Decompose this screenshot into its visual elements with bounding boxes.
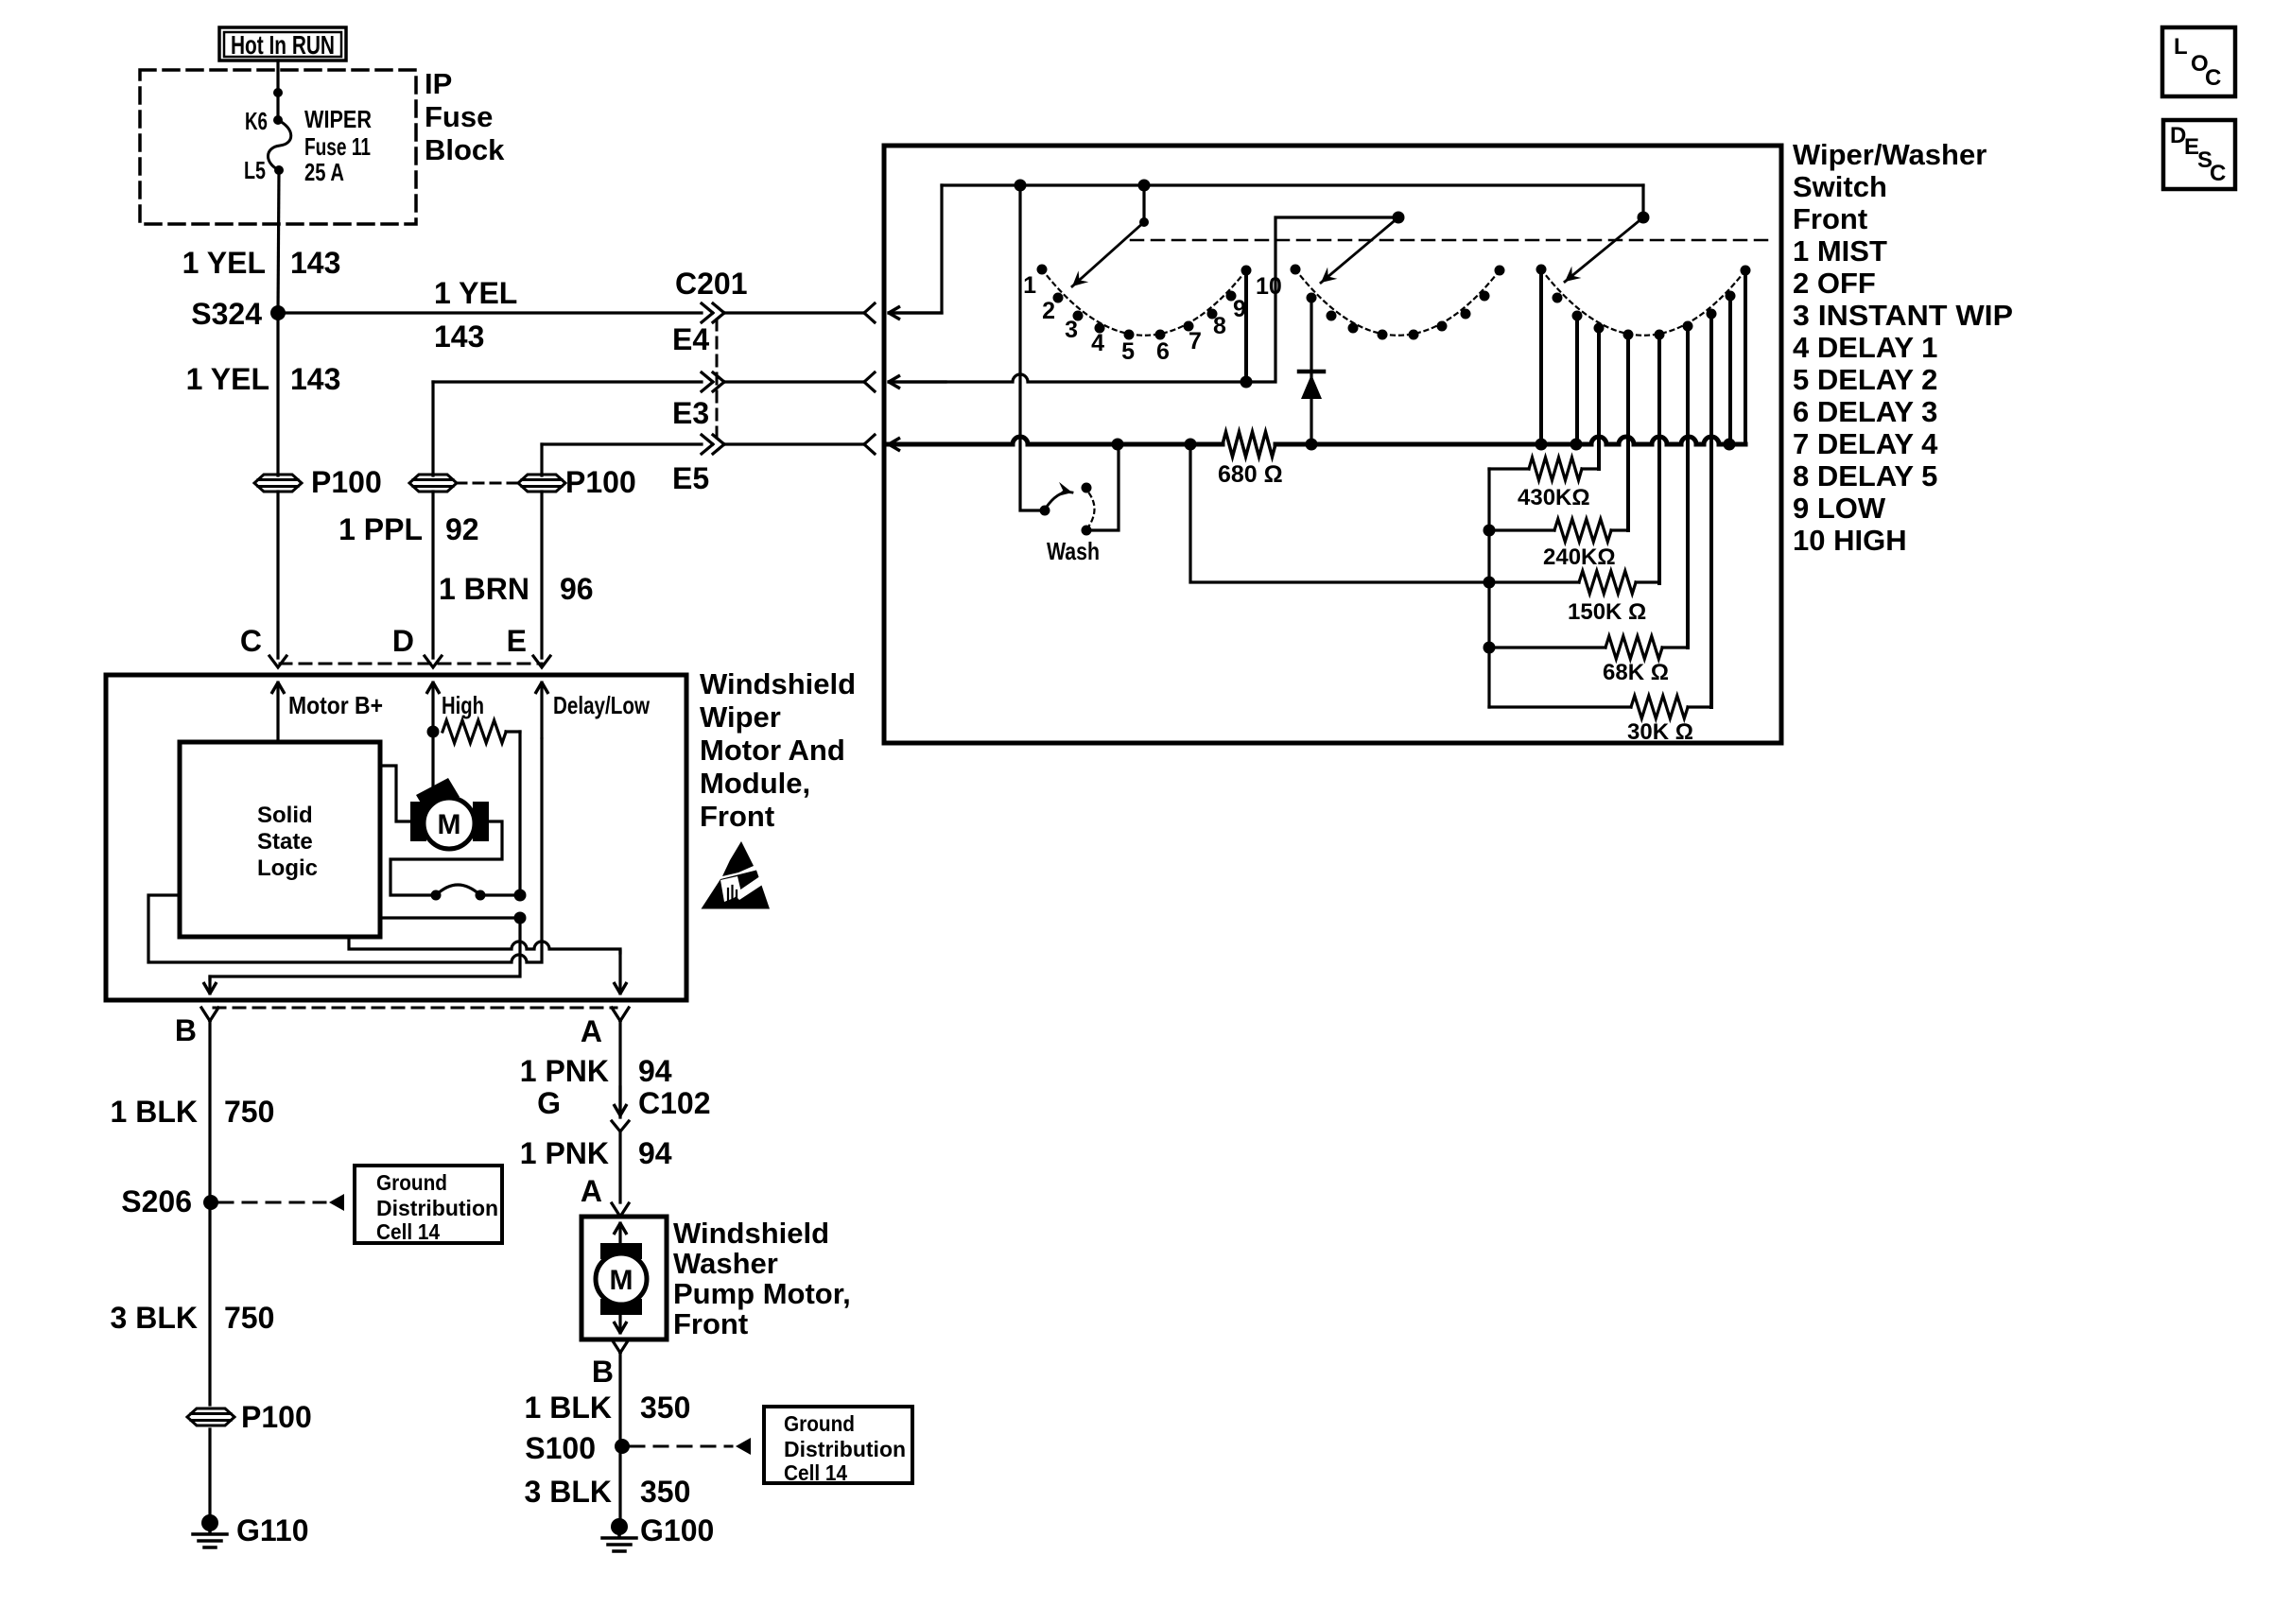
wire row1 riser to top bus [889, 185, 942, 313]
wire label 1 YEL 143 (upper) [182, 246, 341, 280]
fuse F11 WIPER 25A [268, 115, 290, 175]
svg-text:P100: P100 [311, 465, 382, 499]
svg-text:C102: C102 [638, 1086, 711, 1120]
wash switch dashed throw arc [1089, 493, 1095, 526]
switch bank 2 contact arc (dashed) [1295, 269, 1500, 336]
dashed detent travel line [1131, 239, 1776, 242]
wash riser from top bus [1020, 185, 1045, 510]
wire C102 to washer motor [618, 1132, 621, 1202]
pin D fork [425, 656, 442, 667]
switch bank 3 contact arc (dashed) [1541, 269, 1745, 336]
wire SSL bottom to pin A (hops column and delay wire) [349, 937, 620, 953]
svg-text:S206: S206 [121, 1184, 192, 1218]
washer motor exit arrow [618, 1308, 621, 1333]
svg-text:3 INSTANT WIP: 3 INSTANT WIP [1793, 299, 2013, 332]
module connector dashed gang line [214, 1007, 616, 1010]
resistor column wire [1487, 469, 1490, 707]
svg-text:Cell 14: Cell 14 [376, 1219, 440, 1244]
pin D entry arrow (High) [431, 682, 434, 732]
dashed connector gang line C-D-E [280, 663, 542, 665]
resistor high-speed dropping [442, 720, 520, 743]
svg-text:7: 7 [1189, 328, 1202, 354]
junction row3 / bank3 c9 riser [1724, 439, 1736, 451]
svg-text:Distribution: Distribution [376, 1196, 498, 1220]
wire S206 to P100 [208, 1202, 211, 1405]
wire row3 E5 to connector [542, 442, 702, 445]
svg-text:150K Ω: 150K Ω [1568, 599, 1646, 625]
splice pack P100 (C wire) [254, 465, 382, 499]
junction top bus / wash riser [1015, 180, 1027, 192]
junction column lower [514, 912, 527, 924]
svg-text:Switch: Switch [1793, 170, 1887, 203]
wire P100 to G110 [208, 1429, 211, 1518]
svg-text:E3: E3 [672, 396, 709, 430]
svg-text:Wiper: Wiper [700, 700, 781, 734]
LOC reference box [2162, 27, 2235, 96]
wire label 1 PNK 94 (lower) [520, 1136, 672, 1170]
junction top bus / bank1 pivot [1138, 180, 1151, 192]
svg-text:1 BLK: 1 BLK [111, 1095, 198, 1129]
svg-text:M: M [610, 1265, 633, 1296]
svg-text:6 DELAY 3: 6 DELAY 3 [1793, 395, 1937, 428]
svg-text:Pump Motor,: Pump Motor, [673, 1277, 851, 1310]
bank3 pivot riser from top bus [1641, 185, 1644, 217]
svg-text:1 BRN: 1 BRN [439, 572, 529, 606]
svg-text:8: 8 [1213, 313, 1226, 339]
wiper motor M1 [410, 778, 489, 849]
row1 fork at switch box [864, 303, 875, 322]
pin C entry arrow (Motor B+) [276, 682, 279, 742]
svg-text:143: 143 [290, 246, 340, 280]
dashed splice link D-E [457, 482, 518, 485]
fuse name label WIPER Fuse 11 25 A [304, 105, 372, 186]
switch bank 1 contacts 1-10 [1037, 265, 1252, 340]
svg-text:IP: IP [425, 67, 452, 100]
svg-text:K6: K6 [245, 107, 268, 135]
resistor 150K [1489, 571, 1659, 594]
wire label 1 YEL 143 horizontal [434, 276, 517, 354]
wire B to S206 [208, 1021, 211, 1202]
svg-text:1 PNK: 1 PNK [520, 1054, 609, 1088]
top bus wire [942, 183, 1643, 186]
wire High down to motor [431, 732, 434, 794]
svg-text:Front: Front [700, 800, 774, 833]
svg-text:4: 4 [1091, 330, 1104, 356]
row3 wire inside switch (hops + junctions) [889, 437, 1223, 444]
wire S324 down to P100 C [276, 313, 279, 475]
svg-text:1 BLK: 1 BLK [525, 1391, 612, 1425]
ESD sensitive symbol [702, 841, 776, 909]
svg-text:430KΩ: 430KΩ [1518, 485, 1590, 510]
junction row3 / bank3 c3 riser [1570, 439, 1583, 451]
svg-text:30K Ω: 30K Ω [1627, 719, 1693, 745]
washer motor entry arrow [618, 1223, 621, 1250]
svg-text:680 Ω: 680 Ω [1218, 461, 1283, 488]
wire E5 row corner to P100 E [540, 444, 543, 475]
Ground Distribution Cell 14 box (left) [355, 1166, 502, 1244]
svg-text:Distribution: Distribution [784, 1437, 906, 1461]
svg-text:M: M [438, 809, 461, 840]
svg-text:High: High [442, 691, 484, 719]
svg-text:A: A [581, 1174, 602, 1208]
row2 fork at switch box [864, 372, 875, 391]
svg-text:L: L [2174, 34, 2188, 60]
dashed reference wire S100 to ground distribution [631, 1438, 751, 1455]
row2 wire inside switch (hops wash riser) [889, 217, 1398, 382]
dashed reference wire S206 to ground distribution [219, 1194, 344, 1211]
pin E entry arrow (Delay/Low) [540, 682, 543, 737]
wire label 1 PNK 94 (upper) [520, 1054, 672, 1088]
svg-text:10: 10 [1256, 273, 1282, 300]
svg-text:C: C [240, 624, 262, 658]
svg-text:7 DELAY 4: 7 DELAY 4 [1793, 427, 1938, 460]
connector dashed gang line x758 [716, 320, 719, 442]
washer motor name label [673, 1217, 851, 1340]
svg-text:3 BLK: 3 BLK [111, 1301, 198, 1335]
svg-text:1 YEL: 1 YEL [186, 362, 269, 396]
wash switch upper contact [1082, 483, 1092, 493]
svg-text:Cell 14: Cell 14 [784, 1460, 847, 1485]
pin E fork [533, 656, 550, 667]
resistor 240K [1489, 519, 1628, 542]
svg-text:94: 94 [638, 1054, 672, 1088]
junction park switch / column [514, 890, 527, 902]
row3 fork at switch box [864, 435, 875, 454]
wire E3 to switch row2 [724, 380, 864, 383]
wire column down to pin B [210, 918, 520, 979]
svg-text:92: 92 [445, 512, 479, 546]
Wiper/Washer Switch Front legend [1793, 138, 2013, 557]
bank1 contact position numbers [1023, 272, 1282, 365]
svg-text:1: 1 [1023, 272, 1036, 299]
svg-text:Ground: Ground [376, 1170, 447, 1195]
svg-text:P100: P100 [565, 465, 636, 499]
svg-text:G110: G110 [236, 1513, 309, 1547]
Wiper/Washer Switch box [884, 146, 1781, 743]
svg-text:350: 350 [640, 1391, 690, 1425]
svg-text:L5: L5 [244, 156, 266, 184]
pin B fork [201, 1008, 218, 1021]
wire P100 down to pin C [276, 492, 279, 658]
svg-text:Front: Front [1793, 202, 1867, 235]
svg-text:3 BLK: 3 BLK [525, 1475, 612, 1509]
row3 wire right segment with hops over ladder risers [1541, 437, 1745, 444]
svg-text:Logic: Logic [257, 855, 318, 881]
svg-text:Solid: Solid [257, 803, 313, 828]
svg-text:10 HIGH: 10 HIGH [1793, 524, 1907, 557]
svg-text:Wash: Wash [1047, 537, 1100, 565]
switch bank 3 contacts 1-10 [1536, 265, 1751, 340]
svg-text:96: 96 [560, 572, 594, 606]
wire SSL to motor left brush [380, 766, 410, 821]
svg-text:2: 2 [1042, 298, 1055, 324]
diode wire from bank2 contact2 [1310, 297, 1312, 444]
IP Fuse Block dashed boundary [140, 70, 416, 224]
svg-text:750: 750 [224, 1301, 274, 1335]
wire label 1 YEL 143 (lower) [186, 362, 341, 396]
pin B exit arrow [208, 976, 211, 993]
splice node S324 [191, 297, 286, 331]
svg-text:E: E [507, 624, 527, 658]
connector C201/E4 inline symbol [702, 303, 724, 322]
row1 entry arrow inside switch box [889, 311, 942, 314]
svg-text:S100: S100 [525, 1431, 596, 1465]
wire row2 E3 to connector [433, 380, 702, 383]
connector C102 inline symbol [612, 1087, 629, 1132]
switch bank 2 contacts 1-10 [1291, 265, 1505, 340]
svg-text:State: State [257, 829, 313, 855]
svg-text:WIPER: WIPER [304, 105, 372, 133]
svg-text:C: C [2205, 65, 2221, 91]
Windshield Washer Pump Motor box [581, 1217, 667, 1339]
wire E5 to switch row3 [724, 442, 864, 445]
svg-text:Fuse: Fuse [425, 100, 493, 133]
wire E3 row corner to P100 D [431, 382, 434, 475]
svg-text:143: 143 [290, 362, 340, 396]
wire SSL to column (lower) [380, 916, 520, 919]
svg-text:68K Ω: 68K Ω [1603, 660, 1669, 685]
wire label 1 BRN 96 [439, 572, 594, 606]
ladder feed wire row3 to resistor column [1190, 444, 1489, 582]
svg-text:Block: Block [425, 133, 505, 166]
svg-text:G: G [537, 1086, 561, 1120]
svg-text:Delay/Low: Delay/Low [553, 691, 651, 719]
wire label 1 BLK 350 [525, 1391, 691, 1425]
resistor 68K [1489, 636, 1688, 659]
wash switch lower contact [1082, 526, 1092, 536]
svg-text:C: C [2210, 161, 2226, 186]
junction row3 / diode [1306, 439, 1318, 451]
svg-text:E5: E5 [672, 461, 709, 495]
svg-text:P100: P100 [241, 1400, 312, 1434]
connector E5 inline symbol [702, 435, 724, 454]
wire fuse to S324 [278, 170, 279, 313]
DESC reference box [2163, 120, 2235, 189]
wire motor right brush to park switch [390, 821, 502, 895]
svg-text:1 YEL: 1 YEL [182, 246, 266, 280]
splice node S206 [121, 1184, 218, 1218]
svg-text:B: B [592, 1355, 614, 1389]
wire S324 to C201 (1 YEL 143) [278, 311, 702, 314]
wire label 3 BLK 750 [111, 1301, 275, 1335]
junction column/240K [1484, 525, 1496, 537]
Solid State Logic label [257, 803, 318, 881]
wire A to C102 [618, 1021, 621, 1117]
svg-text:Washer: Washer [673, 1247, 778, 1280]
svg-text:94: 94 [638, 1136, 672, 1170]
svg-text:C201: C201 [675, 267, 748, 301]
svg-text:5 DELAY 2: 5 DELAY 2 [1793, 363, 1937, 396]
svg-text:4 DELAY 1: 4 DELAY 1 [1793, 331, 1937, 364]
wire P100 D down to pin D [431, 492, 434, 658]
svg-text:Ground: Ground [784, 1411, 855, 1436]
svg-text:Windshield: Windshield [673, 1217, 829, 1250]
row3 entry arrow inside switch box [889, 442, 946, 447]
Solid State Logic box [180, 742, 380, 937]
svg-text:25 A: 25 A [304, 158, 344, 186]
wire washer B to S100 [618, 1353, 621, 1446]
row3 wire continues past diode [1275, 442, 1541, 447]
wash switch actuation arrow [1047, 492, 1072, 507]
junction row3 / wash return [1112, 439, 1124, 451]
svg-text:1 PNK: 1 PNK [520, 1136, 609, 1170]
bank1 contact10 riser to row2 [1241, 270, 1253, 389]
IP Fuse Block label [425, 67, 505, 166]
diode [1299, 371, 1324, 399]
svg-text:D: D [392, 624, 414, 658]
park switch contacts and arc [431, 885, 521, 901]
svg-text:B: B [175, 1013, 197, 1047]
washer pin B fork [612, 1339, 629, 1353]
switch bank 1 contact arc (dashed) [1042, 269, 1246, 336]
bank1 wiper pivot and arm arrow [1072, 185, 1149, 286]
Hot In RUN power label box [219, 27, 346, 60]
wire label 1 PPL 92 [338, 512, 479, 546]
wire from Hot In RUN into fuse block [273, 60, 283, 120]
Windshield Wiper Motor And Module box [106, 675, 686, 1000]
svg-text:240KΩ: 240KΩ [1543, 544, 1616, 570]
svg-text:Wiper/Washer: Wiper/Washer [1793, 138, 1987, 171]
junction row3 / ladder feed [1185, 439, 1197, 451]
svg-text:6: 6 [1156, 338, 1170, 365]
svg-text:2 OFF: 2 OFF [1793, 267, 1876, 300]
svg-text:Front: Front [673, 1307, 748, 1340]
svg-text:143: 143 [434, 320, 484, 354]
splice pack P100 (D wire) [409, 475, 457, 492]
svg-text:Fuse 11: Fuse 11 [304, 132, 371, 161]
connector E3 inline symbol [702, 372, 724, 391]
svg-text:1 YEL: 1 YEL [434, 276, 517, 310]
bank2 wiper pivot and arm arrow [1321, 212, 1405, 284]
bank3 contact risers [1541, 269, 1745, 707]
svg-text:Motor B+: Motor B+ [288, 691, 383, 719]
splice pack P100 (ground wire) [187, 1400, 312, 1434]
svg-text:Module,: Module, [700, 767, 810, 800]
wire wash lower contact to row3 [1086, 444, 1119, 530]
svg-text:5: 5 [1121, 338, 1135, 365]
svg-text:A: A [581, 1014, 602, 1048]
svg-text:9: 9 [1233, 296, 1246, 322]
junction row3 / bank3 c1 riser [1536, 439, 1548, 451]
wash switch common contact [1040, 506, 1050, 516]
wire P100 E down to pin E [540, 492, 543, 658]
bank3 wiper pivot and arm arrow [1565, 212, 1650, 283]
junction column/feed/150K [1484, 577, 1496, 589]
washer pump motor M2 [596, 1243, 647, 1315]
svg-text:Hot In RUN: Hot In RUN [231, 30, 335, 60]
module name label [700, 667, 856, 833]
wire C201 to switch row1 [724, 311, 864, 314]
resistor 680 ohm [1223, 432, 1275, 457]
wire SSL left to Delay/Low pin (hops column) [148, 739, 542, 962]
resistor 30K [1489, 696, 1711, 718]
svg-text:S324: S324 [191, 297, 262, 331]
junction High/resistor [427, 726, 440, 738]
Ground Distribution Cell 14 box (right) [764, 1407, 912, 1485]
row2 entry arrow inside switch box [889, 380, 946, 383]
wire S100 to G100 [618, 1446, 621, 1522]
svg-text:750: 750 [224, 1095, 274, 1129]
ground G110 [193, 1513, 309, 1547]
pin C fork [269, 656, 286, 667]
svg-text:E4: E4 [672, 322, 709, 356]
resistor 430K [1489, 458, 1599, 480]
wire resistor to motor-switch column [518, 732, 521, 895]
ground G100 [602, 1513, 714, 1551]
splice pack P100 (E wire) [518, 465, 636, 499]
svg-text:Windshield: Windshield [700, 667, 856, 700]
svg-text:Motor And: Motor And [700, 734, 845, 767]
svg-text:8 DELAY 5: 8 DELAY 5 [1793, 459, 1937, 492]
svg-text:1 PPL: 1 PPL [338, 512, 423, 546]
svg-text:1 MIST: 1 MIST [1793, 234, 1887, 268]
svg-text:350: 350 [640, 1475, 690, 1509]
splice node S100 [525, 1431, 630, 1465]
svg-text:9 LOW: 9 LOW [1793, 492, 1886, 525]
wire label 1 BLK 750 [111, 1095, 275, 1129]
pin A exit arrow [618, 951, 621, 993]
svg-text:G100: G100 [640, 1513, 714, 1547]
pin A fork [612, 1008, 629, 1021]
wire label 3 BLK 350 [525, 1475, 691, 1509]
svg-text:3: 3 [1065, 317, 1078, 343]
washer pin A fork [612, 1203, 629, 1217]
junction column/68K [1484, 642, 1496, 654]
